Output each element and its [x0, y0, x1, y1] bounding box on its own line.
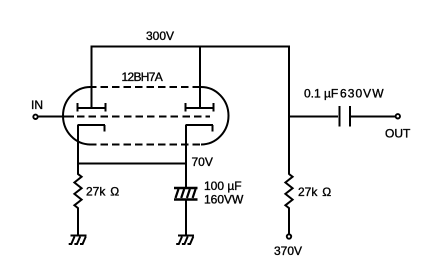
terminal IN	[33, 115, 37, 119]
ground under capacitor	[176, 236, 194, 245]
ground left	[69, 236, 87, 245]
label 70V	[192, 155, 213, 169]
wire: right branch from rail down	[288, 46, 290, 175]
svg-text:160VW: 160VW	[204, 193, 244, 207]
svg-text:12BH7A: 12BH7A	[122, 70, 163, 84]
label IN	[31, 98, 43, 112]
grid of both triodes (dashed)	[77, 116, 210, 118]
triode V1a cathode	[78, 125, 106, 165]
svg-text:27k Ω: 27k Ω	[86, 185, 119, 199]
resistor 27k left	[74, 164, 81, 235]
svg-text:27k Ω: 27k Ω	[298, 185, 331, 199]
tube envelope	[63, 87, 228, 145]
svg-text:100 µF: 100 µF	[204, 179, 242, 193]
capacitor 0.1uF	[340, 106, 351, 127]
triode V1b cathode	[186, 125, 214, 188]
terminal 370V	[287, 234, 291, 238]
triode V1a plate	[77, 103, 106, 112]
label 12BH7A	[122, 70, 163, 84]
label 27k ohm right	[298, 185, 331, 199]
wire: capacitor to ground	[185, 199, 187, 235]
terminal OUT	[396, 114, 400, 118]
label 0.1uF 630VW	[304, 87, 385, 101]
svg-text:630VW: 630VW	[340, 87, 385, 101]
label 27k ohm left	[86, 185, 119, 199]
capacitor 100uF (electrolytic, hatched plate)	[174, 188, 198, 200]
svg-text:370V: 370V	[274, 244, 302, 258]
resistor 27k right	[285, 174, 292, 234]
wire: right plate lead	[199, 46, 201, 109]
wire: junction to coupling capacitor	[289, 116, 338, 118]
label 160VW	[204, 193, 244, 207]
wire: 300V supply rail	[91, 46, 291, 48]
label 300V	[146, 29, 174, 43]
svg-text:OUT: OUT	[385, 127, 411, 141]
svg-text:IN: IN	[31, 98, 43, 112]
wire: cathode bus	[78, 163, 186, 165]
svg-text:0.1 µF: 0.1 µF	[304, 87, 338, 101]
wire: left plate lead	[91, 46, 93, 109]
wire: capacitor to OUT	[351, 116, 395, 118]
label 100uF	[204, 179, 242, 193]
wire: IN to grid	[38, 116, 75, 118]
label OUT	[385, 127, 411, 141]
svg-text:70V: 70V	[192, 155, 213, 169]
svg-text:300V: 300V	[146, 29, 174, 43]
label 370V	[274, 244, 302, 258]
triode V1b plate	[185, 103, 214, 112]
